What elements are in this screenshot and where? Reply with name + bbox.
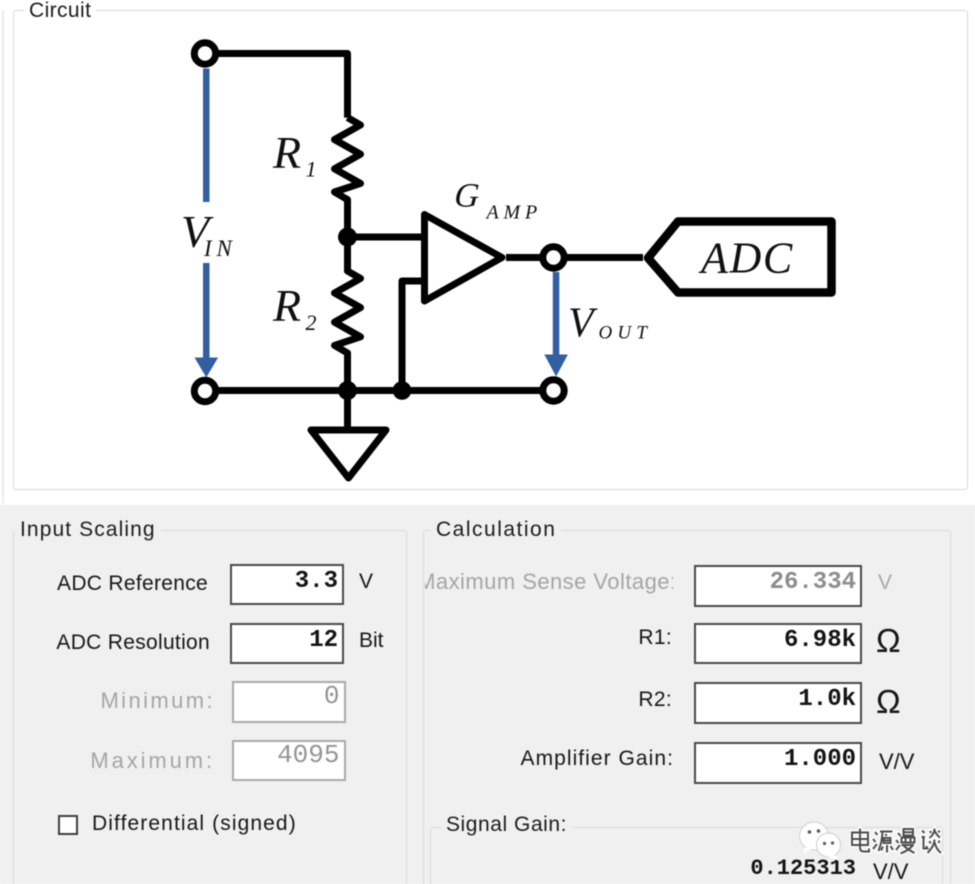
svg-text:R: R <box>272 127 301 178</box>
svg-text:2: 2 <box>306 310 317 335</box>
svg-text:IN: IN <box>203 236 237 261</box>
svg-text:ADC: ADC <box>698 234 794 283</box>
svg-text:R: R <box>272 280 301 331</box>
svg-text:V: V <box>568 301 598 347</box>
svg-text:G: G <box>451 177 485 214</box>
svg-text:1: 1 <box>306 157 317 182</box>
svg-text:AMP: AMP <box>485 202 543 224</box>
svg-text:OUT: OUT <box>599 323 653 344</box>
